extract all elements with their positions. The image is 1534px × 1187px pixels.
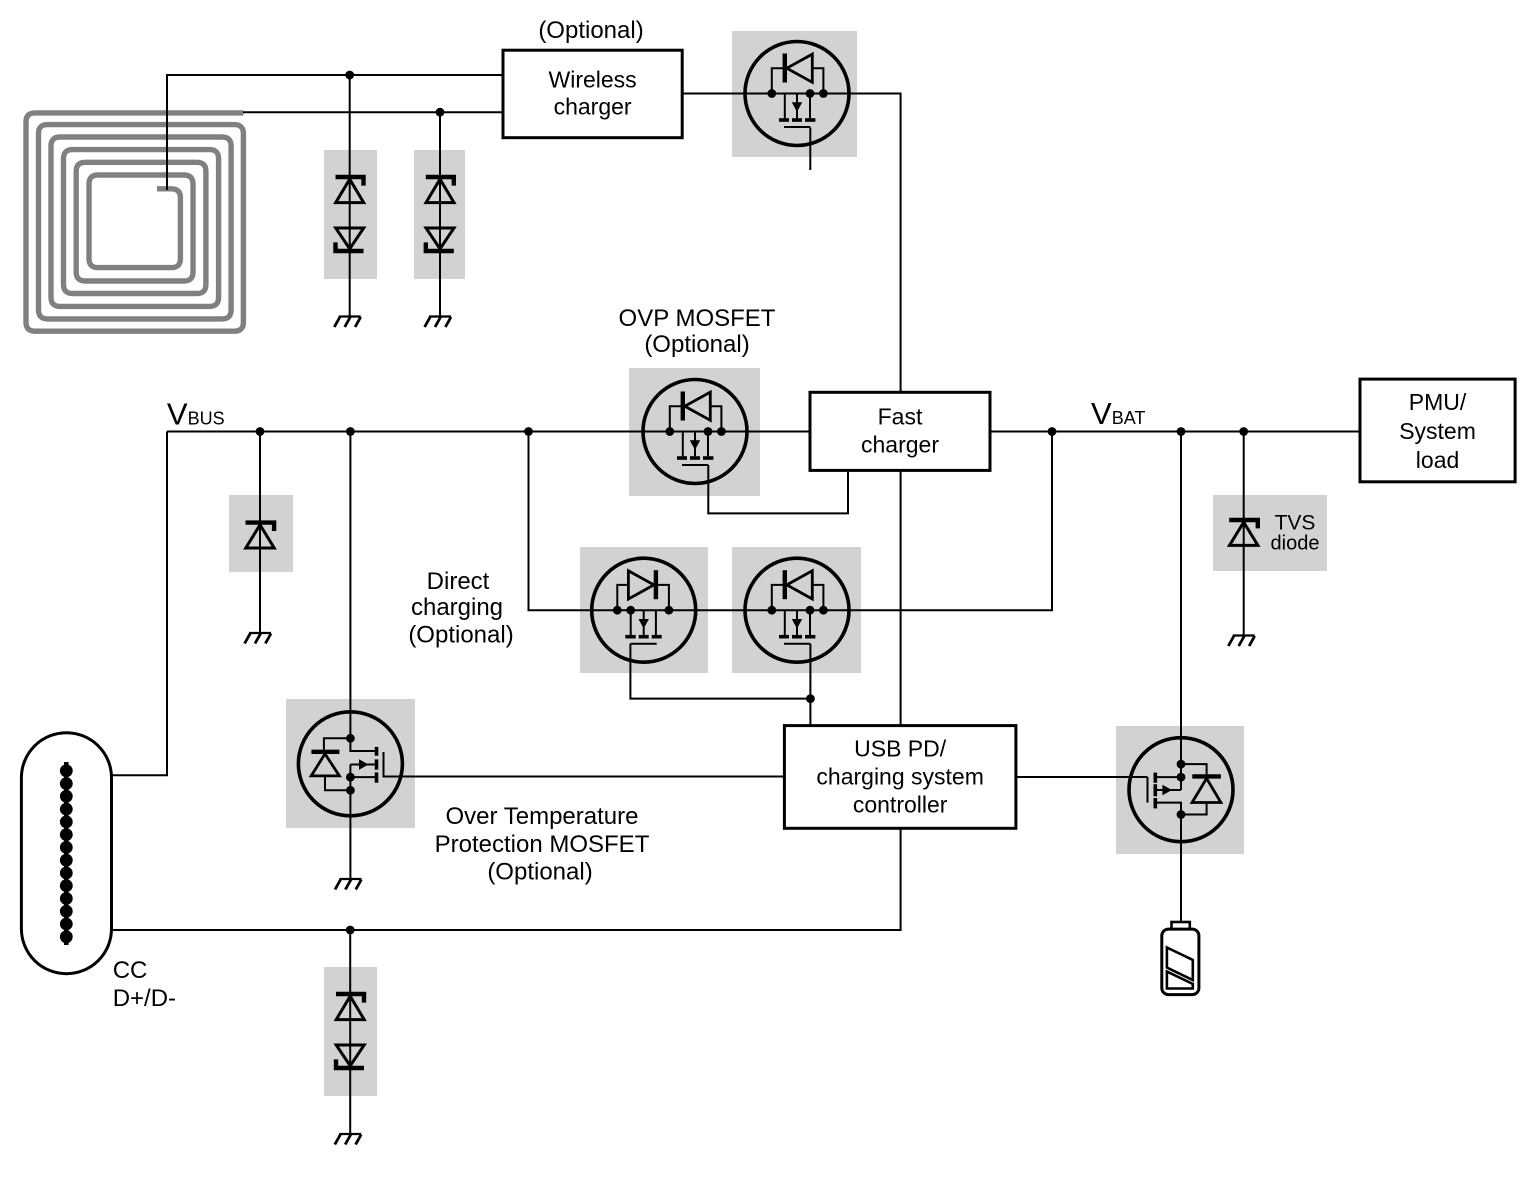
wire: controller to Q6 gate xyxy=(1016,776,1148,778)
junction: Q3-Q4 gate tie xyxy=(806,694,815,703)
svg-text:TVS: TVS xyxy=(1275,512,1316,535)
svg-text:charger: charger xyxy=(554,94,632,120)
ground (TVS D2) xyxy=(425,317,451,328)
transistor Q1 (wireless path load switch MOSFET) xyxy=(745,42,849,146)
junction: VBAT / TVS D4 branch xyxy=(1239,427,1248,436)
wire: VBUS down to OTP MOSFET Q5 source xyxy=(350,432,374,752)
wire: Q2 OVP gate to fast charger bottom xyxy=(708,465,848,513)
PMU / system load block xyxy=(1360,379,1515,482)
highlight box for OVP MOSFET Q2 xyxy=(629,368,760,496)
wireless charging coil L1 (square spiral) xyxy=(26,113,243,331)
wire: VBUS down to USB connector xyxy=(111,432,167,776)
svg-text:charging: charging xyxy=(411,594,503,621)
svg-text:charger: charger xyxy=(861,432,939,458)
svg-text:Over Temperature: Over Temperature xyxy=(446,803,639,830)
wire: VBAT rail fast charger to PMU xyxy=(990,431,1360,433)
transistor Q5 (over temperature protection MOSFET, vertical) xyxy=(298,712,784,816)
highlight box for wireless-path MOSFET Q1 xyxy=(732,31,857,157)
wire: Q6 drain down to battery xyxy=(1180,803,1182,921)
transistor Q2 (OVP MOSFET) xyxy=(643,380,747,484)
wire: VBUS rail xyxy=(167,431,810,433)
highlight box for OTP MOSFET Q5 xyxy=(286,699,415,828)
USB PD / charging system controller block xyxy=(784,726,1016,829)
wire: TVS D1 branch down to ground xyxy=(349,75,351,317)
wire: VBAT TVS D4 branch to ground xyxy=(1243,432,1245,636)
TVS D2 (bidirectional) xyxy=(426,177,454,251)
svg-text:PMU/: PMU/ xyxy=(1409,389,1467,415)
svg-text:Direct: Direct xyxy=(427,568,490,595)
TVS D3 (VBUS zener) xyxy=(246,523,275,548)
TVS D4 (VBAT TVS diode) xyxy=(1229,520,1258,545)
highlight box for TVS D1 xyxy=(324,150,377,279)
svg-text:Fast: Fast xyxy=(878,404,923,430)
junction: CC line / TVS D5 xyxy=(346,926,355,935)
TVS D1 (bidirectional) xyxy=(336,177,364,251)
wire: direct charging branch from VBUS through Q3 Q4 to VBAT xyxy=(529,432,1053,611)
wire: CC-line TVS D5 branch to ground xyxy=(349,930,351,1134)
highlight box for TVS diode D4 xyxy=(1213,495,1327,571)
fast charger block xyxy=(810,392,990,470)
svg-text:D+/D-: D+/D- xyxy=(113,985,176,1012)
wire: VBAT down through Q6 xyxy=(1180,432,1182,791)
USB type-C connector J1 xyxy=(21,733,111,974)
svg-text:CC: CC xyxy=(113,957,148,984)
svg-text:charging system: charging system xyxy=(816,764,983,790)
wire: Q3 gate to controller xyxy=(630,644,810,699)
svg-text:USB PD/: USB PD/ xyxy=(854,736,947,762)
TVS D5 (CC line bidirectional) xyxy=(336,994,364,1068)
highlight box for battery MOSFET Q6 xyxy=(1116,726,1244,854)
svg-text:controller: controller xyxy=(853,792,948,818)
ground (TVS D3) xyxy=(245,633,271,644)
highlight box for VBUS TVS D3 xyxy=(229,495,293,572)
highlight box for TVS D2 xyxy=(414,150,465,279)
wire: CC / D+/D- line from USB connector to controller bottom xyxy=(111,828,901,930)
wire: fast charger bottom to controller top xyxy=(900,470,902,725)
wire: VBUS TVS D3 branch to ground xyxy=(259,432,261,634)
svg-text:load: load xyxy=(1416,447,1459,473)
highlight box for direct-charging MOSFET Q3 xyxy=(580,547,708,673)
highlight box for CC-line TVS D5 xyxy=(324,967,377,1096)
wire: TVS D2 branch down to ground xyxy=(439,112,441,316)
svg-text:(Optional): (Optional) xyxy=(538,17,643,44)
ground (TVS D5) xyxy=(335,1134,361,1145)
transistor Q4 (direct charging MOSFET) xyxy=(745,558,849,662)
wire: Q1 gate stub xyxy=(809,128,811,171)
junction: VBUS / Q5 branch xyxy=(346,427,355,436)
battery BT1 xyxy=(1162,922,1199,995)
svg-text:(Optional): (Optional) xyxy=(644,331,749,358)
junction: VBUS / TVS D3 xyxy=(256,427,265,436)
junction: VBUS / direct charging branch xyxy=(524,427,533,436)
junction: TVS D2 on coil wire xyxy=(436,108,445,117)
svg-text:(Optional): (Optional) xyxy=(408,622,513,649)
svg-text:OVP MOSFET: OVP MOSFET xyxy=(619,305,776,332)
transistor Q6 (battery path MOSFET, vertical) xyxy=(1129,738,1233,842)
ground (Q5 drain) xyxy=(335,879,361,890)
highlight box for direct-charging MOSFET Q4 xyxy=(732,547,861,673)
ground (TVS D4) xyxy=(1228,636,1254,647)
wire: coil inner terminal to wireless charger top input xyxy=(167,75,503,190)
junction: VBAT / direct charging branch xyxy=(1048,427,1057,436)
junction: TVS D1 on coil wire xyxy=(345,71,354,80)
svg-text:System: System xyxy=(1399,418,1476,444)
wire: Q5 drain down to ground xyxy=(349,790,351,879)
svg-text:Protection MOSFET: Protection MOSFET xyxy=(435,831,650,858)
transistor Q3 (direct charging MOSFET, mirrored) xyxy=(592,558,696,662)
junction: VBAT / Q6 branch xyxy=(1177,427,1186,436)
svg-text:diode: diode xyxy=(1271,533,1320,555)
wireless charger block xyxy=(503,50,682,138)
wire: coil outer terminal to wireless charger bottom input xyxy=(243,111,503,113)
wire: Q4 gate down to controller top xyxy=(809,644,811,726)
wire: wireless charger output through Q1 down to fast charger top xyxy=(682,94,901,393)
svg-text:(Optional): (Optional) xyxy=(487,859,592,886)
svg-text:Wireless: Wireless xyxy=(549,67,637,93)
ground (TVS D1) xyxy=(334,317,360,328)
